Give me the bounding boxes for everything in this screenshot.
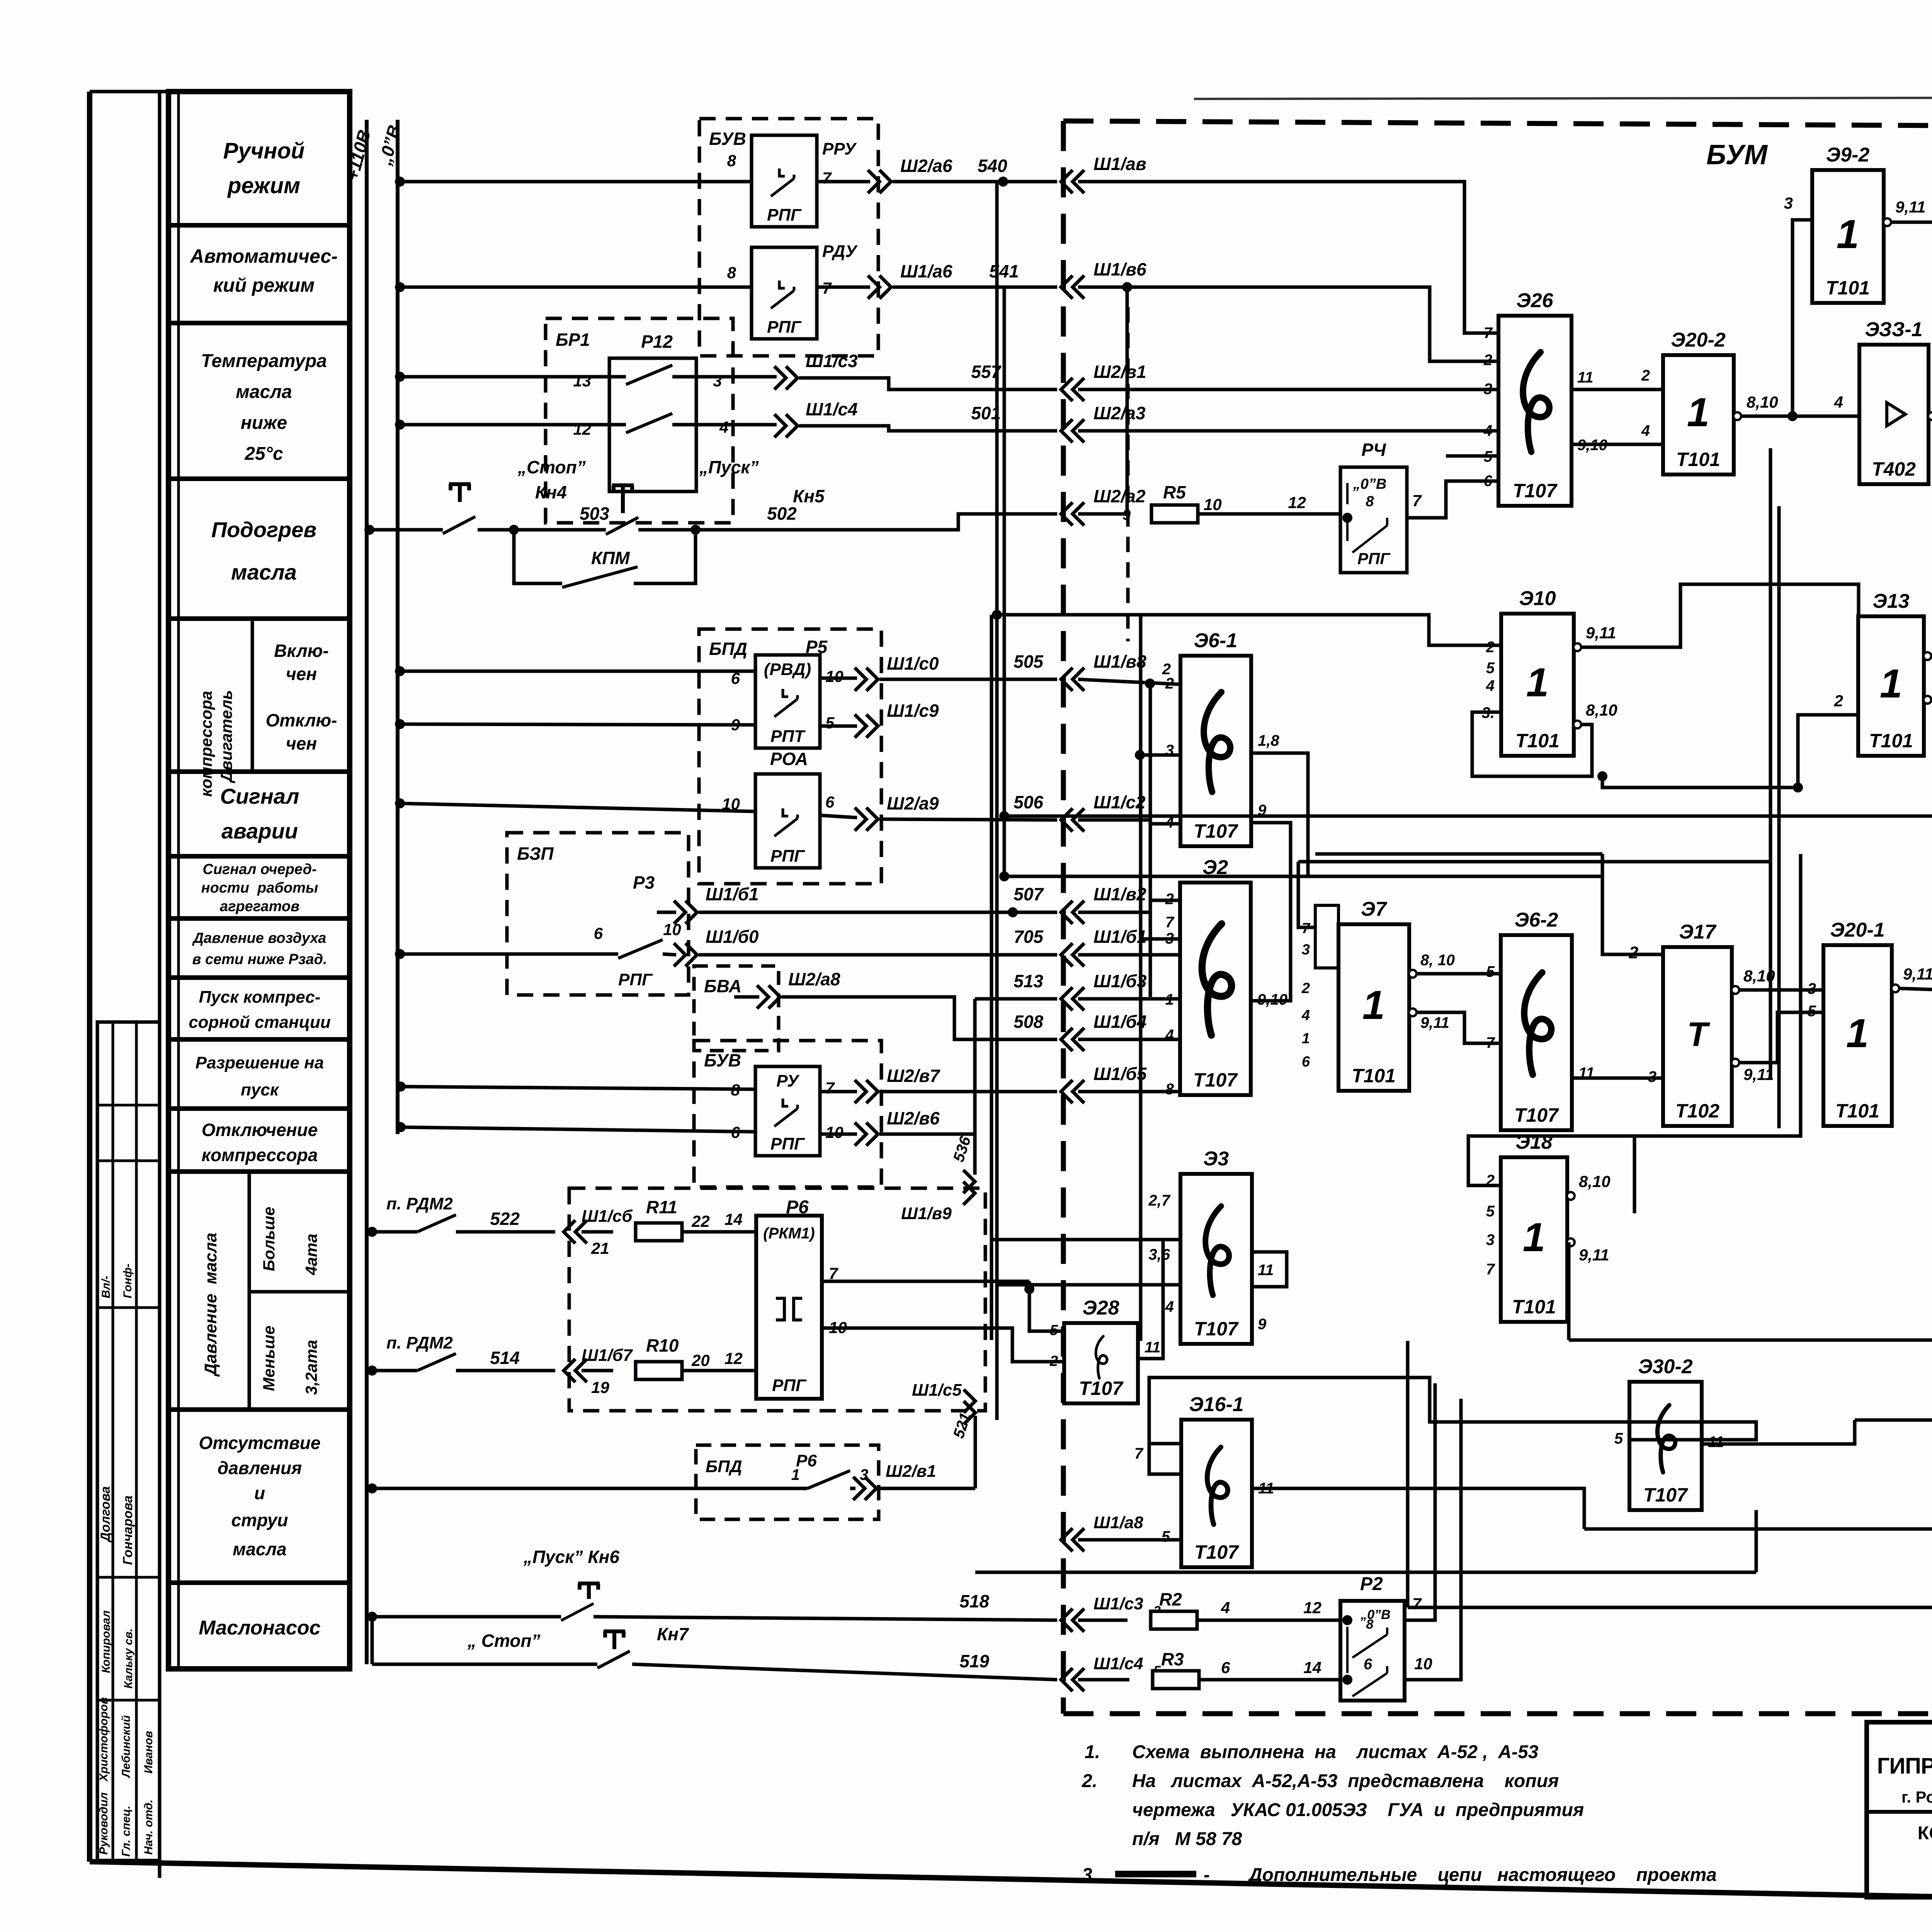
wire: auto-mode row 541: [395, 282, 405, 292]
link wire to Э13 pin2: [1602, 715, 1858, 787]
wire Э6-1 out 9 loop: [1251, 823, 1291, 876]
signal table row divider y=1601: [168, 616, 350, 621]
svg-text:9,11: 9,11: [1586, 624, 1616, 642]
svg-text:11: 11: [1577, 369, 1594, 386]
Э7 outputs: [1409, 970, 1417, 978]
svg-text:4: 4: [1486, 677, 1495, 694]
Э18 outputs: [1567, 1192, 1575, 1200]
svg-text:9,11: 9,11: [1420, 1014, 1449, 1031]
svg-text:Подогрев: Подогрев: [211, 517, 316, 542]
svg-text:масла: масла: [233, 1539, 286, 1559]
svg-text:5: 5: [1050, 1322, 1058, 1338]
svg-text:1: 1: [1523, 1215, 1545, 1260]
svg-text:503: 503: [580, 503, 609, 524]
wire Э6-2.11 to Э17.3: [1572, 1077, 1663, 1080]
svg-text:2: 2: [1483, 352, 1492, 369]
svg-text:8,10: 8,10: [1579, 1172, 1611, 1190]
Р6 output wires: [822, 1280, 1029, 1283]
stamp row divider: [97, 1306, 160, 1309]
БУМ dashed boundary left: [1061, 121, 1066, 1714]
svg-text:Э6-1: Э6-1: [1194, 629, 1238, 652]
svg-text:Ш1/б3: Ш1/б3: [1094, 971, 1147, 991]
push button Кн4 Стоп: [449, 484, 471, 502]
svg-text:РОА: РОА: [770, 749, 808, 769]
logic element Э7 (Т101): [1338, 898, 1409, 1091]
dashed group box БУВ (lower): [694, 1041, 881, 1187]
connector Ш1/сб into dashed box: [564, 1220, 587, 1243]
svg-text:Кн7: Кн7: [657, 1624, 689, 1644]
svg-text:Сигнал: Сигнал: [220, 784, 299, 808]
svg-text:4ата: 4ата: [302, 1234, 320, 1276]
svg-text:п. РДМ2: п. РДМ2: [386, 1333, 453, 1352]
Э20-2 output 8,10: [1733, 412, 1741, 420]
svg-text:5: 5: [1614, 1430, 1623, 1447]
svg-text:„Стоп”: „Стоп”: [517, 457, 586, 477]
connector Ш1/б5: [1061, 1080, 1084, 1103]
svg-text:Ш2/а3: Ш2/а3: [1094, 403, 1146, 423]
svg-text:Т107: Т107: [1194, 1318, 1239, 1340]
svg-text:Ш2/в1: Ш2/в1: [1094, 362, 1146, 382]
vertical pair inside БУМ from 505 row: [1139, 615, 1143, 1341]
svg-text:Кальку св.: Кальку св.: [122, 1628, 135, 1689]
svg-text:Ш1/ав: Ш1/ав: [1094, 154, 1146, 174]
signal table row divider y=3032: [168, 1169, 350, 1174]
logic element Э20-2 (Т101): [1663, 329, 1734, 474]
svg-text:2: 2: [1049, 1353, 1058, 1369]
svg-text:Э9-2: Э9-2: [1826, 144, 1870, 166]
push button Кн6 Пуск (NO): [578, 1583, 600, 1599]
signal table row divider y=2690: [168, 1037, 350, 1042]
svg-text:На листах А-52,А-53 предст: На листах А-52,А-53 представлена копия: [1132, 1771, 1559, 1791]
svg-text:7: 7: [1165, 914, 1175, 931]
Э9-2 output 9,11 to ЭЗЗ-2: [1883, 218, 1891, 226]
svg-text:Э10: Э10: [1519, 587, 1556, 610]
wire: engine ON row 505: [395, 666, 405, 676]
connector Ш1/в2 507: [1061, 901, 1084, 924]
svg-text:7: 7: [822, 169, 832, 187]
svg-text:п. РДМ2: п. РДМ2: [386, 1194, 453, 1213]
svg-text:Гонф-: Гонф-: [121, 1264, 134, 1298]
wire: start permission row: [396, 1082, 406, 1092]
svg-text:Ш1/б4: Ш1/б4: [1094, 1012, 1146, 1032]
svg-text:Т107: Т107: [1194, 1541, 1239, 1563]
svg-text:4: 4: [719, 418, 728, 436]
svg-text:Ш1/а8: Ш1/а8: [1094, 1513, 1143, 1532]
relay Р5 (РВД/РПТ): [755, 655, 820, 748]
svg-text:Ш1/в6: Ш1/в6: [1094, 259, 1146, 279]
Э3 small output box: [1252, 1252, 1287, 1287]
svg-text:2,7: 2,7: [1148, 1192, 1170, 1209]
Э16-1 pin7 stub box: [1149, 1444, 1181, 1474]
svg-text:3: 3: [1302, 942, 1310, 958]
wire 535 Ш1/св - Ш2/аб БТА: [1567, 1242, 1571, 1340]
wire: no oil pressure row 3852: [367, 1483, 377, 1493]
logic element Э26 (Т107): [1498, 289, 1571, 506]
signal table row divider y=836: [168, 321, 350, 325]
relay Р6 (РКМ1): [756, 1197, 822, 1399]
signal table row divider y=1997: [168, 769, 350, 774]
svg-text:507: 507: [1014, 884, 1044, 904]
logic element ЭЗЗ-1 (Т402): [1859, 318, 1929, 484]
svg-text:6: 6: [1484, 473, 1493, 490]
svg-text:в сети ниже Рзад.: в сети ниже Рзад.: [192, 951, 327, 968]
svg-text:Отключение: Отключение: [202, 1120, 318, 1140]
svg-text:14: 14: [1303, 1658, 1321, 1677]
bus +110V vertical: [365, 120, 369, 1664]
long horizontal wire y2112: [1004, 815, 1932, 818]
svg-text:11: 11: [1145, 1339, 1161, 1356]
svg-text:4: 4: [1641, 422, 1650, 439]
svg-text:Автоматичес-: Автоматичес-: [189, 245, 338, 267]
svg-text:масла: масла: [231, 560, 297, 584]
svg-text:Схема выполнена на листах: Схема выполнена на листах А-52 , А-53: [1132, 1742, 1539, 1762]
svg-text:Ш2/а2: Ш2/а2: [1094, 486, 1146, 506]
svg-text:Ш1/с2: Ш1/с2: [1094, 792, 1146, 812]
page frame left border: [87, 92, 92, 1862]
svg-text:Сигнал очеред-: Сигнал очеред-: [202, 861, 316, 878]
Э10 output 8,10: [1573, 721, 1581, 728]
svg-text:8: 8: [727, 264, 736, 282]
Р2 output verticals: [1405, 1383, 1435, 1620]
relay contact Р12 box: [609, 358, 696, 492]
wire Ш1/б1 out of БЗП: [657, 911, 676, 914]
wire: oil pump start row: [367, 1612, 377, 1622]
svg-text:8: 8: [1366, 493, 1374, 510]
svg-text:19: 19: [591, 1378, 609, 1396]
connector Ш1/б3 513 fed from 536 line: [975, 997, 1057, 1001]
svg-text:Ш1/с4: Ш1/с4: [806, 399, 858, 419]
svg-text:чен: чен: [286, 733, 317, 753]
svg-text:4: 4: [1301, 1007, 1310, 1024]
svg-text:Ш2/в6: Ш2/в6: [887, 1108, 940, 1128]
svg-text:Дополнительные цепи насто: Дополнительные цепи настоящего проекта: [1247, 1865, 1717, 1885]
logic element Э6-1 (Т107): [1180, 629, 1251, 846]
svg-text:РПТ: РПТ: [770, 727, 806, 746]
svg-text:РУ: РУ: [776, 1071, 800, 1090]
svg-text:12: 12: [1288, 493, 1306, 512]
svg-text:Э16-1: Э16-1: [1189, 1393, 1243, 1416]
svg-text:Гл. спец.: Гл. спец.: [120, 1806, 133, 1857]
wire Э6-1 out 1,8 loop: [1251, 753, 1308, 876]
scanner artifact line top: [1194, 97, 1932, 99]
svg-text:Ш2/а6: Ш2/а6: [900, 156, 952, 176]
svg-text:аварии: аварии: [221, 819, 298, 843]
page frame top-left stub: [90, 90, 176, 94]
long feed wire to Э10 pin2: [997, 615, 1501, 645]
wire 530 Ш2/а4 - Ш1/а2: [1584, 1527, 1932, 1531]
logic element Э2 (Т107): [1180, 856, 1251, 1095]
svg-text:7: 7: [1484, 325, 1493, 342]
svg-text:8: 8: [1366, 1617, 1374, 1632]
svg-text:Э20-1: Э20-1: [1830, 919, 1884, 941]
svg-text:1: 1: [791, 1466, 800, 1483]
svg-text:14: 14: [724, 1210, 743, 1228]
svg-text:(РВД): (РВД): [764, 660, 811, 679]
Э20-1 output to Э21: [1891, 985, 1899, 992]
cell split: Двигатель компрессора: [251, 619, 254, 772]
wire Ш2/а8 out of БВА: [734, 995, 759, 999]
Э10 top loop to Э13: [1581, 584, 1859, 647]
switch п.РДМ2 lower: [367, 1366, 377, 1376]
svg-text:г. Ростов -на- Дону 1976 г.: г. Ростов -на- Дону 1976 г.: [1901, 1788, 1932, 1806]
svg-text:21: 21: [591, 1239, 609, 1257]
long wire y4069: [975, 1571, 1756, 1574]
svg-text:9,11: 9,11: [1903, 965, 1932, 983]
svg-text:Ш1/а6: Ш1/а6: [900, 261, 952, 281]
svg-text:Ш1/б5: Ш1/б5: [1094, 1064, 1147, 1084]
svg-text:506: 506: [1014, 792, 1043, 812]
Э13 out wires to right and down: [1931, 656, 1932, 816]
dashed box around Р6 РКМ1: [569, 1188, 985, 1411]
logic element Э20-1 (Т101): [1823, 919, 1892, 1126]
svg-text:25°с: 25°с: [244, 444, 283, 464]
svg-text:Маслонасос: Маслонасос: [199, 1617, 320, 1639]
svg-text:2.: 2.: [1082, 1771, 1097, 1791]
signal table outer box: [168, 92, 350, 1669]
svg-text:КОМПРЕССОРНАЯ: КОМПРЕССОРНАЯ: [1918, 1823, 1932, 1844]
svg-text:3: 3: [713, 372, 722, 390]
svg-text:Э20-2: Э20-2: [1671, 329, 1726, 351]
svg-text:1,8: 1,8: [1258, 732, 1279, 749]
svg-text:6: 6: [825, 793, 835, 811]
svg-text:РПГ: РПГ: [772, 1376, 807, 1395]
svg-text:Т101: Т101: [1515, 730, 1560, 752]
svg-text:1: 1: [1165, 991, 1174, 1008]
svg-text:Меньше: Меньше: [260, 1326, 278, 1391]
svg-text:Т101: Т101: [1676, 449, 1720, 470]
connector Ш1/б1 705: [1061, 943, 1084, 966]
svg-text:„0”В: „0”В: [1353, 476, 1387, 492]
contact Р12 lower: [626, 413, 672, 433]
resistor R5: [1078, 512, 1130, 516]
svg-text:Ш2/в7: Ш2/в7: [887, 1066, 940, 1086]
svg-text:Ш1/б0: Ш1/б0: [706, 927, 759, 947]
bypass contact КПМ: [514, 530, 562, 583]
logic element Э18 (Т101): [1501, 1131, 1567, 1322]
svg-text:Ш1/с5: Ш1/с5: [912, 1381, 962, 1400]
svg-text:Ш1/в2: Ш1/в2: [1094, 884, 1146, 904]
svg-text:Кн4: Кн4: [535, 482, 567, 502]
svg-text:12: 12: [573, 420, 591, 438]
svg-text:Отсутствие: Отсутствие: [199, 1433, 321, 1453]
svg-text:Р3: Р3: [633, 872, 655, 893]
svg-text:БПД: БПД: [706, 1457, 742, 1476]
svg-text:7: 7: [825, 1079, 835, 1097]
contact Р12 upper: [626, 365, 672, 384]
svg-text:3,2ата: 3,2ата: [302, 1340, 320, 1395]
push button Кн7 Стоп: [371, 1617, 374, 1664]
svg-text:РДУ: РДУ: [822, 242, 858, 261]
logic element Э13 (Т101): [1858, 590, 1924, 756]
connector Ш1/ав into БУМ: [1061, 170, 1084, 193]
signal table row divider y=4096: [168, 1580, 350, 1585]
svg-text:„ Стоп”: „ Стоп”: [467, 1631, 541, 1651]
wire Э26.9,10 to Э20-2.4: [1571, 443, 1663, 446]
svg-text:2: 2: [1641, 367, 1650, 384]
wire: engine OFF row Ш1/с9: [395, 719, 405, 729]
svg-text:Ш1/б7: Ш1/б7: [582, 1346, 633, 1365]
svg-text:Ш2/а9: Ш2/а9: [887, 793, 939, 813]
svg-text:Температура: Температура: [201, 351, 327, 371]
dashed group box БВА: [694, 966, 779, 1051]
signal table row divider y=2530: [168, 975, 350, 980]
svg-text:БПД: БПД: [709, 639, 747, 659]
svg-text:22: 22: [691, 1212, 710, 1230]
БУМ dashed boundary top: [1063, 121, 1932, 128]
svg-text:Э30-2: Э30-2: [1638, 1355, 1693, 1378]
svg-text:20: 20: [691, 1351, 710, 1369]
svg-text:1: 1: [1846, 1011, 1869, 1056]
svg-text:522: 522: [490, 1209, 520, 1229]
logic element Э30-2 (Т107): [1629, 1355, 1702, 1510]
svg-text:КПМ: КПМ: [591, 548, 630, 568]
logic element Э10 (Т101): [1501, 587, 1574, 756]
svg-text:519: 519: [959, 1651, 989, 1671]
connector Ш2/а3 into БУМ: [1061, 419, 1084, 442]
wire: alarm row 506: [395, 798, 405, 808]
wire 538 Ш1/с7 - Ш1/с8: [1408, 1606, 1932, 1609]
svg-text:РРУ: РРУ: [822, 139, 857, 158]
svg-text:Вклю-: Вклю-: [274, 641, 328, 661]
svg-text:3,6: 3,6: [1148, 1246, 1170, 1263]
svg-text:Кн5: Кн5: [793, 486, 825, 506]
svg-text:6: 6: [1302, 1054, 1310, 1070]
svg-text:541: 541: [989, 261, 1019, 281]
connector Ш2/в1 into БУМ: [1061, 378, 1084, 401]
svg-text:1.: 1.: [1085, 1742, 1100, 1762]
svg-text:Т107: Т107: [1079, 1378, 1124, 1399]
svg-text:4: 4: [1221, 1599, 1230, 1617]
svg-text:5: 5: [1486, 963, 1495, 980]
signal table row divider y=2869: [168, 1106, 350, 1111]
svg-text:Больше: Больше: [260, 1207, 278, 1271]
svg-text:Пуск компрес-: Пуск компрес-: [199, 988, 321, 1007]
svg-text:9: 9: [1258, 1316, 1267, 1333]
svg-text:компрессора: компрессора: [197, 691, 215, 797]
svg-text:1: 1: [1880, 661, 1902, 706]
svg-text:БУМ: БУМ: [1706, 139, 1768, 170]
svg-text:Э7: Э7: [1361, 898, 1387, 920]
svg-text:Гончарова: Гончарова: [121, 1495, 135, 1565]
svg-text:3: 3: [1486, 1231, 1495, 1248]
signal table row divider y=2216: [168, 854, 350, 859]
svg-text:Ш1/б1: Ш1/б1: [706, 884, 759, 904]
svg-text:Т102: Т102: [1675, 1100, 1719, 1122]
wire: manual-mode row 540: [395, 177, 405, 187]
svg-text:9,11: 9,11: [1895, 198, 1926, 216]
svg-text:10: 10: [1414, 1655, 1432, 1673]
wire from Ш1/в6 to Э26 pin2: [1122, 282, 1132, 292]
svg-text:БУВ: БУВ: [709, 129, 746, 149]
connector Ш1/а8 to Э16-1 pin5: [1078, 1538, 1181, 1542]
relay РРУ: [752, 135, 817, 227]
title block outer box: [1867, 1722, 1932, 1897]
stamp row divider: [97, 1576, 160, 1579]
svg-text:Отклю-: Отклю-: [266, 710, 337, 730]
stamp column divider: [135, 1022, 138, 1861]
svg-text:Копировал: Копировал: [100, 1610, 112, 1673]
svg-text:2: 2: [1301, 980, 1310, 997]
svg-text:Ш2/а8: Ш2/а8: [788, 969, 840, 989]
signal table row divider y=3648: [168, 1407, 350, 1412]
wire heating row to Ш2/а2: [696, 514, 1057, 530]
svg-text:РЧ: РЧ: [1361, 440, 1386, 460]
wire 529 Ш1/с1 - Ш1/с2: [1855, 1418, 1932, 1422]
vertical link to Э9-2 pin3: [1793, 220, 1812, 416]
svg-text:РПГ: РПГ: [1357, 549, 1391, 568]
svg-text:ности работы: ности работы: [201, 880, 318, 896]
svg-text:Долгова: Долгова: [98, 1486, 113, 1543]
connector Ш1/б7: [564, 1359, 587, 1382]
wire Э7 to Э6-2: [1416, 972, 1501, 976]
inner dashed vertical x2919: [1126, 307, 1130, 641]
wire: oil heating row start: [364, 525, 374, 535]
svg-text:502: 502: [767, 503, 797, 524]
svg-text:6: 6: [594, 924, 603, 942]
svg-text:Ш1/в9: Ш1/в9: [901, 1204, 952, 1223]
svg-text:Т101: Т101: [1826, 277, 1870, 299]
svg-text:Т107: Т107: [1193, 1069, 1238, 1091]
svg-text:514: 514: [490, 1348, 520, 1368]
svg-text:Т: Т: [1687, 1015, 1710, 1053]
svg-text:струи: струи: [231, 1510, 288, 1530]
ЭЗЗ-1 output 8 wire to ЯТЧ pin16: [1928, 412, 1932, 420]
svg-text:1: 1: [1687, 390, 1709, 435]
logic element Э6-2 (Т107): [1501, 909, 1572, 1130]
cell split: Давление масла: [248, 1172, 251, 1410]
Э2 input jogs: [1150, 900, 1180, 912]
svg-text:5: 5: [1162, 1528, 1170, 1545]
vertical 4660 feedback: [1634, 854, 1801, 1136]
svg-text:Т107: Т107: [1513, 480, 1558, 502]
stamp column divider: [112, 1022, 114, 1861]
svg-text:Христофоров: Христофоров: [97, 1697, 110, 1782]
svg-text:Руководил: Руководил: [97, 1792, 110, 1855]
svg-text:„0”В: „0”В: [1360, 1607, 1390, 1622]
536 vertical: [973, 999, 977, 1175]
svg-text:11: 11: [1708, 1434, 1724, 1451]
svg-text:540: 540: [978, 156, 1007, 176]
svg-text:6: 6: [1364, 1656, 1372, 1673]
wire Э26.11 to Э20-2.2: [1571, 388, 1663, 391]
signal table row divider y=583: [168, 223, 350, 228]
svg-text:1: 1: [1302, 1031, 1310, 1047]
Э10 output 9,11: [1573, 643, 1581, 651]
wire РЧ output to Э26 pin6: [1407, 481, 1498, 518]
dashed group box БПД (lower, Р6 contact): [696, 1445, 879, 1519]
central verticals: [1769, 448, 1772, 1078]
wire: air pressure row 705: [395, 949, 405, 959]
Э18 input loop box: [1468, 1136, 1634, 1213]
svg-text:513: 513: [1014, 971, 1043, 991]
connector Ш2/а2 into БУМ: [1061, 502, 1084, 526]
big loop around Э16-1: [1149, 1378, 1756, 1444]
svg-text:масла: масла: [236, 382, 292, 402]
БУМ dashed boundary bottom: [1063, 1711, 1932, 1716]
relay РДУ: [752, 247, 817, 339]
svg-text:давления: давления: [218, 1458, 302, 1478]
svg-text:5: 5: [1486, 660, 1495, 677]
long horizontal wire y2268: [1004, 875, 1602, 878]
svg-text:Э26: Э26: [1516, 289, 1553, 312]
svg-text:чертежа УКАС 01.005ЭЗ ГУА: чертежа УКАС 01.005ЭЗ ГУА и предприятия: [1132, 1800, 1584, 1820]
svg-text:4: 4: [1834, 393, 1843, 411]
svg-text:Т101: Т101: [1512, 1296, 1556, 1318]
svg-text:Т101: Т101: [1869, 730, 1913, 752]
svg-text:2: 2: [1165, 675, 1174, 692]
push button Кн5 Пуск (NO): [612, 485, 634, 513]
svg-text:ЭЗЗ-1: ЭЗЗ-1: [1865, 318, 1922, 341]
